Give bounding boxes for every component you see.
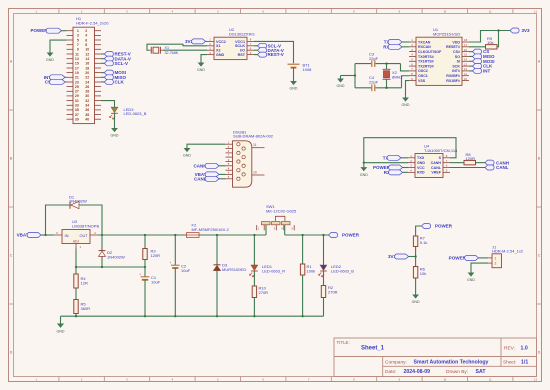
svg-text:TXD: TXD: [417, 156, 425, 160]
svg-text:32.768K: 32.768K: [165, 51, 179, 55]
main ground: [60, 316, 62, 323]
svg-text:OSC1: OSC1: [418, 74, 428, 78]
crystal X1 32.768K: [149, 49, 152, 51]
svg-text:15: 15: [464, 53, 468, 57]
wire U4 CANL to CANL flag: [450, 167, 485, 169]
ADJ mid rail: [75, 249, 77, 268]
svg-text:POWER: POWER: [435, 224, 453, 229]
svg-text:GND: GND: [467, 278, 475, 282]
svg-text:TXCAN: TXCAN: [418, 40, 431, 44]
LED LED2 LED-0603_B: [323, 235, 325, 265]
svg-text:RXCAN: RXCAN: [418, 45, 431, 49]
H1 pin stubs: [67, 31, 102, 120]
svg-text:GND: GND: [402, 103, 410, 107]
resistor R1 100k: [302, 235, 304, 264]
wire LED3 to ground: [114, 113, 116, 127]
svg-text:GND: GND: [197, 68, 205, 72]
svg-text:RST: RST: [238, 53, 246, 57]
wire OSC2 connection: [401, 64, 410, 71]
svg-text:3: 3: [77, 34, 79, 38]
svg-text:10k: 10k: [487, 40, 493, 45]
svg-text:39: 39: [75, 118, 79, 122]
svg-text:13: 13: [464, 62, 468, 66]
svg-text:38: 38: [85, 113, 89, 117]
wire R9 to 3V3 rail: [497, 31, 499, 47]
svg-text:22pF: 22pF: [369, 56, 379, 61]
U2 pin names: [216, 40, 246, 57]
svg-text:21: 21: [75, 76, 79, 80]
ground at U4: [363, 163, 365, 168]
svg-text:RESET#: RESET#: [446, 45, 460, 49]
svg-text:29: 29: [75, 94, 79, 98]
svg-text:Sheet:: Sheet:: [503, 359, 516, 364]
net flag CS at U1: [469, 51, 473, 53]
svg-text:16: 16: [85, 62, 89, 66]
resistor R8 120R: [464, 160, 476, 164]
svg-text:SI: SI: [457, 60, 460, 64]
svg-text:POWER: POWER: [30, 28, 48, 33]
ground at H1 pin5: [49, 52, 51, 53]
svg-text:LED-0603_R: LED-0603_R: [262, 268, 285, 273]
svg-text:TX0RTS#: TX0RTS#: [418, 55, 434, 59]
svg-text:14: 14: [464, 58, 468, 62]
svg-text:120R: 120R: [466, 156, 476, 161]
ground below U1 VSS: [405, 97, 407, 98]
svg-text:11: 11: [253, 143, 257, 147]
svg-text:VDD: VDD: [452, 40, 460, 44]
net flag CANL: [485, 165, 494, 170]
svg-text:1/1: 1/1: [521, 360, 528, 366]
net flag MOSI at H1: [101, 72, 104, 74]
svg-text:31: 31: [75, 99, 79, 103]
ground at J1: [470, 272, 472, 273]
svg-text:OSC2: OSC2: [418, 69, 428, 73]
svg-text:MK-12C02-G025: MK-12C02-G025: [266, 209, 297, 214]
svg-text:16: 16: [464, 48, 468, 52]
net flag CANH: [485, 160, 494, 165]
LED LED1 LED-0603_R: [253, 235, 255, 265]
net flag MISO at H1: [101, 76, 104, 78]
svg-text:24: 24: [85, 80, 89, 84]
U1 pin numbers: [411, 38, 467, 81]
U4 pin names: [417, 156, 442, 175]
svg-text:34: 34: [85, 104, 89, 108]
wire U4 GND to ground: [364, 162, 408, 164]
svg-text:10: 10: [464, 77, 468, 81]
svg-text:GND: GND: [337, 84, 345, 88]
wire POWER to J1 pin1: [479, 257, 489, 259]
diode D2 1N4002W: [101, 235, 103, 251]
svg-text:INT: INT: [483, 69, 491, 74]
LED D-LED3 LED-0603_B: [111, 107, 118, 112]
svg-text:LED-0603_B: LED-0603_B: [124, 111, 147, 116]
svg-text:35: 35: [75, 108, 79, 112]
svg-text:120R: 120R: [151, 253, 161, 258]
resistor R5 360R: [74, 300, 78, 314]
svg-text:8MHz: 8MHz: [392, 74, 402, 79]
svg-text:LED-0603_B: LED-0603_B: [331, 268, 354, 273]
svg-text:36: 36: [85, 108, 89, 112]
svg-text:10k: 10k: [420, 271, 426, 276]
svg-text:CS#: CS#: [453, 50, 460, 54]
wire R8 to CANH flag: [476, 162, 486, 164]
wire SW1 out to rail: [284, 225, 286, 235]
svg-text:VSS: VSS: [418, 79, 426, 83]
svg-text:LM338T/NOPB: LM338T/NOPB: [72, 223, 99, 228]
svg-text:GND: GND: [216, 53, 225, 57]
net flag MOSI at U1: [469, 60, 473, 62]
wire U1 VDD to 3V3: [469, 31, 510, 43]
svg-text:CANH: CANH: [194, 163, 207, 168]
resistor R10 270R: [253, 271, 255, 286]
svg-text:17: 17: [464, 43, 468, 47]
wire VBAT to U3 IN: [41, 234, 54, 236]
wire U1 VSS to ground: [406, 81, 410, 97]
ground below U2: [200, 62, 202, 63]
svg-text:2024-08-09: 2024-08-09: [404, 369, 431, 375]
svg-text:I/O: I/O: [240, 49, 245, 53]
svg-text:Date:: Date:: [385, 369, 396, 375]
svg-text:SCLK: SCLK: [235, 44, 245, 48]
svg-text:27: 27: [75, 90, 79, 94]
svg-text:HDR-F-2.54_2x20: HDR-F-2.54_2x20: [76, 20, 109, 25]
svg-text:ADJ: ADJ: [73, 240, 79, 244]
capacitor C4 22pF: [355, 87, 371, 89]
svg-text:SUB-DRAM-802A-002: SUB-DRAM-802A-002: [233, 134, 274, 139]
svg-text:10uF: 10uF: [181, 268, 191, 273]
bottom ground rail: [61, 315, 324, 317]
svg-text:40: 40: [85, 118, 89, 122]
svg-text:CANL: CANL: [431, 166, 442, 170]
wire POWER to R7: [416, 226, 422, 236]
DSUB1 pin stubs and numbers: [226, 144, 233, 179]
svg-text:SAT: SAT: [476, 369, 487, 375]
svg-text:REST-V: REST-V: [268, 52, 284, 57]
net flag DATA-V at H1: [101, 58, 104, 60]
fuse F2 MF-MSMF250/16X-2: [187, 233, 200, 238]
svg-text:33: 33: [75, 104, 79, 108]
svg-text:26: 26: [85, 85, 89, 89]
svg-text:11: 11: [75, 52, 79, 56]
svg-text:X1: X1: [216, 44, 221, 48]
svg-text:10: 10: [85, 48, 89, 52]
svg-text:10: 10: [253, 170, 257, 174]
svg-text:+: +: [169, 261, 171, 265]
svg-text:MCP2515-I/SO: MCP2515-I/SO: [433, 31, 460, 36]
ground below R6: [415, 294, 417, 295]
junction U3 OUT: [101, 234, 103, 236]
DSUB1 mounting pin 10: [252, 174, 265, 176]
net flag INT at U1: [469, 70, 473, 72]
svg-text:MF-MSMF250/16X-2: MF-MSMF250/16X-2: [192, 227, 230, 232]
svg-text:3V3: 3V3: [522, 28, 531, 33]
wire rail into SW1: [265, 225, 267, 235]
net flag DATA-V at U2: [254, 49, 258, 51]
svg-text:14: 14: [85, 57, 89, 61]
svg-text:SCL-V: SCL-V: [115, 61, 129, 66]
svg-text:TX1RTS#: TX1RTS#: [418, 60, 434, 64]
svg-text:19: 19: [75, 71, 79, 75]
svg-text:C: C: [538, 253, 541, 257]
svg-text:C: C: [10, 253, 13, 257]
svg-text:28: 28: [85, 90, 89, 94]
svg-text:GND: GND: [183, 154, 191, 158]
svg-text:10uF: 10uF: [151, 279, 161, 284]
title block: [334, 338, 537, 377]
wire H1 pin 32 to LED3: [101, 101, 115, 107]
svg-text:VCC2: VCC2: [216, 40, 226, 44]
svg-text:OUT: OUT: [79, 234, 88, 238]
svg-text:INT#: INT#: [452, 69, 460, 73]
svg-text:HDR-M-2.54_1x2: HDR-M-2.54_1x2: [492, 249, 524, 254]
svg-text:DS1302ZXRG: DS1302ZXRG: [229, 31, 255, 36]
svg-text:X2: X2: [216, 49, 221, 53]
svg-text:22pF: 22pF: [369, 80, 379, 85]
svg-text:1: 1: [77, 29, 79, 33]
wire OSC1 connection: [402, 76, 410, 88]
DSUB1 pin circles: [237, 143, 246, 181]
svg-text:Smart Automation Technology: Smart Automation Technology: [414, 360, 489, 366]
svg-text:22: 22: [85, 76, 89, 80]
svg-text:11: 11: [464, 72, 467, 76]
net flag 3V3 at U1: [510, 28, 519, 33]
svg-text:1: 1: [495, 257, 497, 261]
wire BT1 to ground: [293, 68, 295, 80]
svg-text:18: 18: [85, 66, 89, 70]
net flag REST-V at U2: [254, 54, 258, 56]
wire J1 pin2 to ground: [471, 263, 488, 271]
svg-text:D: D: [538, 350, 541, 354]
resistor R6 10k: [415, 257, 417, 267]
DSUB1 mounting pin 11: [252, 147, 265, 149]
svg-text:VREF: VREF: [431, 171, 441, 175]
U1 pin names: [418, 40, 460, 83]
svg-text:18: 18: [464, 38, 468, 42]
svg-text:37: 37: [75, 113, 79, 117]
svg-text:GND: GND: [290, 87, 298, 91]
svg-text:MURS100EG: MURS100EG: [222, 267, 246, 272]
wire U4 S pin loop to ground: [364, 138, 456, 163]
svg-text:12R: 12R: [81, 280, 88, 285]
svg-text:SO: SO: [455, 55, 460, 59]
svg-text:CANH: CANH: [431, 161, 442, 165]
wire X1 crystal to U2.X2: [163, 49, 207, 51]
svg-text:X1: X1: [165, 46, 170, 50]
net flag POWER at rail end: [329, 233, 338, 238]
resistor R9 10k: [469, 46, 486, 48]
svg-text:Sheet_1: Sheet_1: [361, 346, 385, 352]
diode D1 1N4002W bypass loop: [46, 205, 71, 235]
svg-text:25: 25: [75, 85, 79, 89]
svg-text:GND: GND: [111, 134, 119, 138]
junctions at crystal X2: [385, 62, 387, 64]
svg-text:1008: 1008: [303, 67, 313, 72]
svg-text:CLK: CLK: [115, 80, 125, 85]
svg-text:100k: 100k: [307, 268, 316, 273]
svg-text:270R: 270R: [259, 290, 269, 295]
wire H1 pin5 to ground: [50, 40, 67, 51]
svg-text:20: 20: [85, 71, 89, 75]
svg-text:12: 12: [464, 67, 468, 71]
net flag REST-V at H1: [101, 53, 104, 55]
svg-text:8: 8: [85, 43, 87, 47]
wire U4 CANH to R8: [450, 162, 464, 164]
svg-text:GND: GND: [57, 330, 65, 334]
svg-text:23: 23: [75, 80, 79, 84]
svg-text:270R: 270R: [328, 289, 338, 294]
crystal X2 8MHz: [386, 64, 388, 70]
svg-text:POWER: POWER: [342, 233, 360, 238]
H1 pin numbers 1-40: [75, 29, 89, 122]
svg-text:GND: GND: [360, 173, 368, 177]
svg-text:CANL: CANL: [496, 165, 509, 170]
svg-text:POWER: POWER: [449, 256, 467, 261]
svg-text:RX1BF#: RX1BF#: [446, 79, 460, 83]
svg-text:D: D: [10, 350, 13, 354]
svg-text:13: 13: [75, 57, 79, 61]
wire OUT rail: [99, 234, 187, 236]
svg-text:1N4002W: 1N4002W: [107, 254, 125, 259]
diode D1 symbol: [69, 201, 71, 208]
wire U2 GND pin to ground: [201, 55, 207, 62]
resistor R4 12R: [75, 267, 77, 274]
svg-text:15: 15: [75, 62, 79, 66]
net flag POWER at divider: [422, 224, 431, 229]
battery BT1 1008: [288, 63, 300, 65]
svg-text:5.1k: 5.1k: [420, 240, 428, 245]
svg-text:32: 32: [85, 99, 89, 103]
svg-text:SCK: SCK: [452, 64, 460, 68]
svg-text:Drawn By:: Drawn By:: [446, 369, 468, 375]
oscillator left rail and ground: [354, 64, 356, 88]
svg-text:2: 2: [495, 262, 497, 266]
resistor R3 120R: [144, 235, 146, 249]
diode D3 MURS100EG: [216, 235, 218, 265]
svg-text:9: 9: [77, 48, 79, 52]
svg-text:CLKOUT/SOF: CLKOUT/SOF: [418, 50, 442, 54]
capacitor C1 10uF: [144, 267, 146, 277]
resistor R2 270R: [323, 271, 325, 286]
svg-text:IN: IN: [65, 233, 69, 238]
U4 pin numbers: [410, 154, 448, 173]
svg-text:17: 17: [75, 66, 79, 70]
svg-text:Company:: Company:: [385, 359, 407, 365]
net flag SCL-V at U2: [254, 45, 258, 47]
svg-text:5: 5: [77, 38, 79, 42]
U2 pin numbers: [209, 38, 252, 55]
ground at DSUB1: [186, 147, 188, 148]
svg-text:4: 4: [85, 34, 87, 38]
svg-text:GND: GND: [412, 300, 420, 304]
svg-text:12: 12: [85, 52, 89, 56]
svg-text:VCC: VCC: [417, 166, 425, 170]
net flag SCL-V at H1: [101, 62, 104, 64]
wire U2 VCC1 to battery BT1: [254, 41, 294, 63]
svg-text:2: 2: [85, 29, 87, 33]
wire F2 to SW1: [199, 234, 266, 236]
ground below BT1: [293, 80, 295, 81]
svg-text:TJA1050T/CM,118: TJA1050T/CM,118: [424, 148, 458, 153]
net flag CLK at H1: [101, 81, 104, 83]
net flag MISO at U1: [469, 55, 473, 57]
svg-text:GND: GND: [46, 58, 54, 62]
svg-text:TX2RTS#: TX2RTS#: [418, 64, 434, 68]
svg-text:6: 6: [85, 38, 87, 42]
ground below LED3: [114, 127, 116, 128]
junction at 3V3 rail: [497, 29, 499, 31]
svg-text:VCC1: VCC1: [235, 40, 245, 44]
svg-text:7: 7: [77, 43, 79, 47]
capacitor C3 22pF: [355, 63, 371, 65]
capacitor C2 10uF: [174, 235, 176, 265]
svg-text:1N4002W: 1N4002W: [69, 199, 87, 204]
svg-text:RX0BF#: RX0BF#: [446, 74, 460, 78]
svg-text:GND: GND: [417, 161, 425, 165]
svg-text:REV:: REV:: [504, 346, 515, 352]
net flag CLK at U1: [469, 65, 473, 67]
svg-text:TITLE:: TITLE:: [337, 340, 350, 345]
svg-text:30: 30: [85, 94, 89, 98]
resistor R7 5.1k: [413, 236, 417, 247]
svg-text:+: +: [139, 272, 141, 276]
svg-text:1.0: 1.0: [521, 346, 528, 352]
wire DSUB1 pin 1 to ground: [187, 144, 226, 147]
svg-text:RXD: RXD: [417, 171, 425, 175]
wire X1 crystal loop to U2.X1: [147, 44, 207, 50]
svg-text:360R: 360R: [81, 306, 91, 311]
